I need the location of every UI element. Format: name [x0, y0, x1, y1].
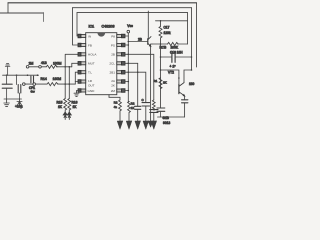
- svg-text:R14: R14: [41, 77, 47, 81]
- svg-text:2M: 2M: [29, 61, 34, 65]
- node vcc pin7: [128, 90, 130, 92]
- wire VT1 base feed: [128, 41, 147, 43]
- capacitor C19: [172, 52, 175, 62]
- wire row 1: [29, 66, 72, 68]
- svg-text:100K: 100K: [171, 45, 179, 49]
- IC right pins: [117, 34, 125, 92]
- wire rowB riser to pin 1R: [75, 82, 80, 85]
- capacitor C21: [182, 100, 188, 103]
- node a4: [37, 74, 39, 76]
- svg-text:R15: R15: [57, 101, 63, 105]
- node vcc base: [128, 41, 130, 43]
- terminal row1 b: [39, 66, 42, 69]
- node R17 top: [160, 20, 162, 22]
- svg-text:1K: 1K: [58, 105, 63, 109]
- svg-text:VT2: VT2: [168, 70, 174, 74]
- svg-text:2B1: 2B1: [109, 71, 115, 75]
- node C19 right: [191, 56, 193, 58]
- wire bottom right: [158, 116, 185, 118]
- ground G2: [17, 99, 22, 106]
- svg-text:IC1: IC1: [89, 24, 95, 28]
- wire left vertical x65: [65, 54, 80, 98]
- wire Vcc vertical: [127, 33, 129, 102]
- node x136 pin5: [137, 71, 139, 73]
- svg-text:R1: R1: [154, 79, 158, 83]
- svg-text:HOLA: HOLA: [88, 53, 97, 57]
- resistor R13: [46, 65, 57, 68]
- svg-text:C4820S: C4820S: [102, 24, 116, 28]
- ground G6: [117, 121, 123, 129]
- svg-text:1K: 1K: [131, 106, 135, 110]
- node a1: [6, 74, 8, 76]
- wire pin6 to x134: [125, 81, 128, 83]
- svg-text:GND: GND: [88, 89, 96, 93]
- wire top rail 2: [73, 7, 192, 9]
- wire rail2 left drop to pin FB: [73, 8, 81, 45]
- svg-text:Gw: Gw: [31, 90, 36, 94]
- svg-text:R16: R16: [72, 101, 78, 105]
- wire rail2 right drop: [191, 8, 193, 70]
- wire output row y44: [152, 43, 188, 45]
- wire pin4 to x136: [125, 62, 138, 64]
- capacitor C15: [142, 103, 150, 121]
- wire row A: [3, 74, 39, 76]
- wire bottom left: [4, 98, 22, 100]
- wire VT1 collector riser: [147, 11, 149, 39]
- node x69 row1: [69, 66, 71, 68]
- wire emitter down x151.5: [150, 46, 152, 121]
- terminal rowB: [33, 83, 36, 86]
- svg-text:100M: 100M: [53, 61, 62, 65]
- wire y12.5 left: [0, 12, 44, 14]
- wire rail3 right drop to R19: [187, 13, 189, 44]
- resistor R21: [128, 102, 131, 122]
- wire C19 row: [161, 56, 192, 58]
- node vcc pin3: [128, 54, 130, 56]
- ground G3: [63, 112, 67, 120]
- svg-text:160M: 160M: [53, 77, 62, 81]
- capacitor C1 electrolytic: [2, 75, 12, 99]
- svg-text:OUT: OUT: [88, 84, 95, 88]
- wire row B: [25, 83, 75, 85]
- node a2: [16, 74, 18, 76]
- svg-text:MUT: MUT: [88, 62, 95, 66]
- node x65 rowB: [64, 83, 66, 85]
- svg-text:T.L: T.L: [88, 71, 92, 75]
- resistor R17: [159, 21, 162, 44]
- wire left vertical x69: [68, 67, 70, 99]
- wire IC bottom to branch1: [109, 95, 120, 100]
- ground G1: [4, 99, 10, 106]
- svg-text:PS: PS: [111, 43, 115, 47]
- node vcc pin6: [128, 81, 130, 83]
- wire VT2 collector riser: [184, 70, 192, 83]
- ground G4: [67, 112, 71, 120]
- wire VT2 emitter drop: [184, 96, 186, 117]
- terminal Vcc: [127, 30, 130, 33]
- svg-text:C17: C17: [164, 25, 170, 29]
- svg-text:2B: 2B: [111, 53, 115, 57]
- wire pin5 to x145: [125, 72, 146, 102]
- IC U1 body: [86, 33, 117, 95]
- wire pin1 right: [125, 35, 128, 37]
- svg-text:C18 10H: C18 10H: [170, 50, 183, 54]
- wire rail1 left drop: [7, 3, 9, 13]
- svg-text:+10µ: +10µ: [15, 105, 23, 109]
- svg-text:+ 1º: + 1º: [170, 65, 177, 69]
- svg-text:120k: 120k: [164, 31, 171, 35]
- transistor VT2: [179, 83, 185, 97]
- svg-text:R2: R2: [114, 101, 118, 105]
- ground G10: [151, 121, 157, 129]
- svg-text:FB: FB: [88, 43, 92, 47]
- wire y20.8: [156, 20, 188, 22]
- wire x160.5 mid vertical: [160, 44, 162, 108]
- node VT2 feed left: [160, 69, 162, 71]
- capacitor CF1: [31, 76, 34, 83]
- node VT2 feed mid: [178, 77, 180, 79]
- transistor VT1: [148, 37, 151, 47]
- wire top rail 1: [8, 2, 197, 4]
- svg-text:2CL: 2CL: [109, 62, 115, 66]
- input terminal J1: [5, 64, 10, 76]
- wire pin7 right: [125, 90, 128, 92]
- node x65 row1: [64, 66, 66, 68]
- svg-text:G1B: G1B: [163, 116, 169, 120]
- svg-text:Vcc: Vcc: [127, 24, 133, 28]
- ground G5 IC gnd pin: [74, 91, 81, 97]
- svg-text:1K: 1K: [73, 105, 78, 109]
- resistor R16: [68, 99, 71, 113]
- wire VT1 emitter corner: [151, 44, 152, 46]
- resistor R15: [64, 99, 67, 113]
- svg-text:P8: P8: [111, 34, 115, 38]
- IC pin labels right: [109, 34, 116, 93]
- terminal rowB left: [23, 83, 26, 86]
- node vcc pin2: [128, 44, 130, 46]
- node R17 bottom: [160, 43, 162, 45]
- node a3: [27, 74, 29, 76]
- terminal row1: [26, 66, 29, 69]
- IC pin labels left: [88, 34, 98, 93]
- wire top rail 3: [77, 12, 188, 14]
- svg-text:4n: 4n: [114, 105, 118, 109]
- capacitor C2: [17, 75, 21, 99]
- ground G7: [126, 121, 132, 129]
- resistor R18: [159, 78, 162, 89]
- wire pin3 to x153: [125, 54, 154, 100]
- node x69 rowB: [69, 83, 71, 85]
- ground G11: [148, 121, 153, 127]
- svg-text:2M: 2M: [111, 89, 116, 93]
- node C19 left: [160, 56, 162, 58]
- ground G8: [135, 121, 141, 129]
- svg-text:413: 413: [41, 61, 47, 65]
- svg-text:C: C: [142, 98, 144, 102]
- capacitor C16: [150, 110, 158, 121]
- resistor R20: [119, 100, 122, 121]
- wire x43.5 stub drop: [43, 13, 45, 22]
- wire pin2 right: [125, 44, 128, 46]
- ground G9: [143, 121, 149, 129]
- resistor R19: [168, 42, 179, 45]
- capacitor C14: [135, 63, 141, 121]
- capacitor C20: [157, 108, 165, 117]
- wire rail3 left drop to pin IN: [77, 13, 81, 36]
- resistor R23: [152, 100, 155, 110]
- node vcc pin5: [128, 71, 130, 73]
- svg-text:IN: IN: [88, 34, 91, 38]
- wire row1 riser to pin MUT: [72, 63, 81, 67]
- svg-text:180: 180: [189, 82, 195, 86]
- svg-text:9013: 9013: [163, 121, 170, 125]
- wire x75.3 stub pin T: [75, 72, 80, 81]
- wire VT2 base feed: [161, 70, 179, 84]
- IC U1 notch: [97, 33, 105, 37]
- resistor R14: [47, 83, 58, 86]
- IC left pins: [78, 34, 86, 92]
- node vcc pin4: [128, 63, 130, 65]
- wire rail1 right drop: [196, 3, 198, 67]
- svg-text:2K: 2K: [163, 81, 167, 85]
- svg-text:2B: 2B: [138, 38, 142, 42]
- node collector rail: [191, 69, 193, 71]
